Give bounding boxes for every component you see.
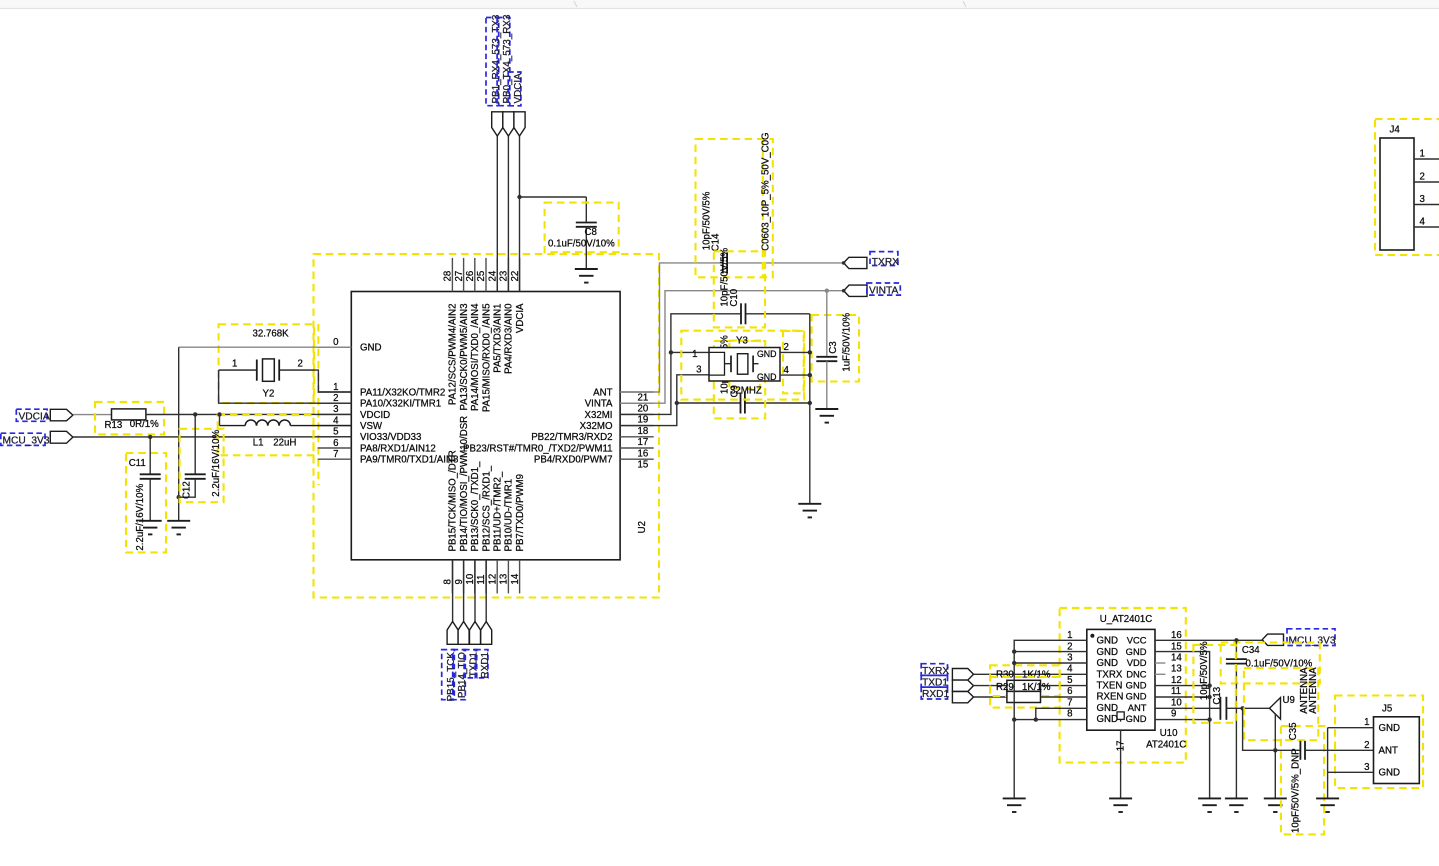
svg-text:R29: R29 [996, 682, 1014, 693]
wire VDCIA to C8 [520, 197, 587, 223]
svg-text:VINTA: VINTA [585, 399, 613, 410]
C14 selection box [696, 132, 773, 277]
net label TXD1 [464, 650, 480, 678]
svg-text:14: 14 [1171, 653, 1182, 664]
connector J4 [1375, 119, 1439, 255]
svg-text:1: 1 [1067, 630, 1072, 641]
svg-text:PB22/TMR3/RXD2: PB22/TMR3/RXD2 [531, 432, 612, 443]
capacitor C12 2.2uF [179, 414, 224, 502]
wire C35 to J5 pin2 [1305, 749, 1374, 751]
junction X32MO/C9 [675, 401, 679, 405]
U2 pin 17 PB22/TMR3/RXD2 [531, 432, 653, 448]
U10 pin 7 GND [1067, 697, 1118, 714]
U2 pin 21 ANT [593, 387, 654, 403]
svg-text:15: 15 [638, 460, 649, 471]
net label PB0_TX4_573_RX3 [497, 14, 513, 106]
svg-text:1: 1 [1364, 717, 1369, 728]
U2 pin 26 PA14/MOSI/TXD0_/AIN4 [465, 258, 481, 411]
svg-text:0R/1%: 0R/1% [130, 419, 159, 430]
inductor L1 22uH [218, 414, 352, 455]
svg-text:GND: GND [757, 349, 777, 359]
wire VINTA net [620, 291, 844, 404]
net label PB14_TIO [453, 650, 469, 700]
junction gnd right pin12 [1207, 683, 1211, 687]
wire U2 to PB14_TIO [463, 560, 465, 622]
svg-text:PB15_TCK: PB15_TCK [446, 652, 457, 702]
wire branch to C35 [1243, 708, 1301, 750]
U2 pin 4 VSW [318, 415, 383, 432]
svg-text:C0603_10P_5%_50V_C0G: C0603_10P_5%_50V_C0G [760, 132, 771, 251]
svg-text:PB23/RST#/TMR0_/TXD2/PWM11: PB23/RST#/TMR0_/TXD2/PWM11 [463, 443, 612, 454]
svg-text:R13: R13 [105, 420, 123, 431]
U10 pin 10 ANT [1128, 697, 1183, 713]
svg-text:16: 16 [638, 448, 649, 459]
U10 pin 4 TXRX [1067, 664, 1123, 681]
page top bar [0, 0, 1439, 9]
svg-text:2: 2 [333, 393, 338, 404]
svg-text:GND: GND [1126, 646, 1147, 657]
U2 selection box [314, 254, 660, 598]
port PB14_TIO [458, 622, 469, 645]
svg-text:14: 14 [510, 573, 521, 584]
svg-text:4: 4 [1420, 217, 1426, 228]
svg-text:PB11/UD+/TMR2_: PB11/UD+/TMR2_ [493, 471, 504, 551]
svg-text:3: 3 [1420, 194, 1425, 205]
IC U2 body [351, 292, 620, 560]
port TXRX bottom [921, 664, 973, 680]
wire PB1_RX4_573_TX3 to U2 [496, 136, 498, 292]
svg-text:VDD: VDD [1127, 657, 1147, 668]
U2 pin 8 PB15/TCK/MISO_/DTR [443, 450, 459, 593]
U2 pin 6 PA8/RXD1/AIN12 [318, 438, 436, 455]
IC U10 body [1087, 614, 1187, 750]
svg-text:VINTA: VINTA [869, 286, 898, 297]
net label PB15_TCK [442, 650, 458, 702]
wire C9 row [677, 402, 810, 404]
ground C8 [575, 269, 598, 283]
svg-text:2: 2 [784, 342, 789, 353]
wire ANT to C13 [1155, 707, 1220, 709]
svg-text:VCC: VCC [1127, 635, 1147, 646]
svg-text:4: 4 [333, 415, 339, 426]
svg-text:GND: GND [1379, 768, 1401, 779]
port PB0_TX4_573_RX3 [503, 112, 514, 136]
svg-text:PA12/SCS/PWM4/AIN2: PA12/SCS/PWM4/AIN2 [448, 304, 459, 406]
IC U2 designator [637, 521, 648, 533]
wire antenna to gnd [1274, 713, 1276, 798]
svg-text:22uH: 22uH [273, 438, 296, 449]
U10 pin 6 RXEN [1067, 686, 1123, 703]
wire U2 to RXD1 [485, 560, 487, 622]
junction MCU_3V3/C11 [148, 435, 152, 439]
svg-text:DNC: DNC [1126, 668, 1147, 679]
U10 pin 12 GND [1126, 675, 1182, 691]
svg-text:U9: U9 [1283, 695, 1295, 706]
U2 pin 5 VIO33/VDD33 [318, 427, 422, 444]
port PB1_RX4_573_TX3 [492, 112, 503, 136]
svg-text:10pF/50V/5%: 10pF/50V/5% [1199, 641, 1210, 700]
svg-text:ANT: ANT [593, 387, 612, 398]
U2 pin 22 VDCIA [510, 258, 526, 333]
svg-text:C10: C10 [729, 288, 740, 306]
wire ANT to TXRX [620, 263, 844, 392]
junction antenna branch [1240, 706, 1244, 710]
U10 pin 11 GND [1126, 686, 1181, 702]
wire Y3 gnd drop [809, 314, 811, 504]
junction C9/gnd [808, 401, 812, 405]
ground Y3 [798, 504, 821, 518]
svg-text:J5: J5 [1382, 704, 1392, 715]
svg-text:VDCIA: VDCIA [19, 411, 50, 422]
ground GND net [167, 521, 190, 535]
U2 pin 0 GND [318, 337, 382, 354]
U10 pin13 stub [1155, 673, 1165, 675]
svg-text:GND: GND [1097, 703, 1119, 714]
junction Y3 pin4 [808, 373, 812, 377]
svg-text:1: 1 [1420, 149, 1425, 160]
svg-text:13: 13 [499, 574, 510, 585]
svg-text:RXD1: RXD1 [480, 651, 491, 678]
svg-text:PA11/X32KO/TMR2: PA11/X32KO/TMR2 [360, 387, 445, 398]
svg-text:GND: GND [1097, 714, 1119, 725]
svg-text:27: 27 [454, 271, 465, 282]
svg-text:AT2401C: AT2401C [1146, 740, 1186, 751]
ground U10 left [1003, 798, 1026, 812]
capacitor C14 10pF [723, 252, 727, 273]
svg-text:TXRX: TXRX [872, 257, 899, 268]
U2 pin 7 PA9/TMR0/TXD1/AIN8 [318, 449, 459, 466]
svg-text:10pF/50V/5%_DNP: 10pF/50V/5%_DNP [1291, 748, 1302, 833]
svg-text:GND: GND [1097, 636, 1119, 647]
port VINTA [842, 283, 900, 297]
junction VDCIA/C8 [517, 195, 521, 199]
svg-text:1: 1 [333, 382, 338, 393]
svg-text:PB14_TIO: PB14_TIO [457, 652, 468, 698]
svg-text:9: 9 [1171, 709, 1176, 720]
wire U10 gnd bus [1014, 640, 1087, 798]
svg-text:2.2uF/16V/10%: 2.2uF/16V/10% [135, 483, 146, 550]
svg-text:11: 11 [1171, 686, 1181, 697]
U2 pin 15 PB4/RXD0/PWM7 [534, 455, 654, 471]
svg-text:PA4/RXD3/AIN0: PA4/RXD3/AIN0 [504, 303, 515, 374]
svg-text:6: 6 [1067, 686, 1072, 697]
svg-text:1uF/50V/10%: 1uF/50V/10% [842, 313, 853, 372]
crystal Y2 32.768K [219, 324, 314, 403]
junction gnd bus pin3 [1012, 661, 1016, 665]
svg-text:10: 10 [1171, 697, 1182, 708]
wire U10 gnd right [1155, 652, 1210, 799]
svg-text:TXD1: TXD1 [469, 652, 480, 678]
svg-text:4: 4 [1067, 664, 1073, 675]
junction gnd bus pin2 [1012, 649, 1016, 653]
U2 pin 19 X32MI [585, 410, 654, 426]
svg-text:PA5/TXD3/AIN1: PA5/TXD3/AIN1 [493, 304, 504, 373]
svg-text:17: 17 [638, 437, 649, 448]
U2 pin 3 VDCID [318, 404, 390, 421]
svg-text:0.1uF/50V/10%: 0.1uF/50V/10% [548, 239, 615, 250]
svg-text:PB13/SCK0_/TXD1_: PB13/SCK0_/TXD1_ [470, 461, 481, 552]
U10 pin 3 GND [1067, 653, 1118, 670]
junction gnd bus pin8 [1012, 717, 1016, 721]
ground J5 [1316, 798, 1339, 812]
svg-text:C34: C34 [1242, 645, 1260, 656]
svg-text:C13: C13 [1212, 687, 1223, 705]
U10 pin 15 GND [1126, 641, 1182, 657]
wire C13 to antenna [1226, 707, 1269, 709]
port TXD1 [921, 675, 973, 691]
ground C34 [1225, 798, 1248, 812]
wire Y2 pin1 to U2 pin2 [219, 370, 352, 403]
capacitor C3 1uF [812, 291, 859, 409]
svg-text:VDCIA: VDCIA [513, 73, 524, 104]
svg-text:Y3: Y3 [736, 336, 748, 347]
net label RXD1 [475, 650, 491, 679]
svg-text:MCU_3V3: MCU_3V3 [1289, 636, 1336, 647]
junction VDCID/C12 [193, 412, 197, 416]
svg-text:RXEN: RXEN [1097, 692, 1124, 703]
wire X32MI net [620, 314, 810, 415]
U2 pin 25 PA15/MISO/RXD0_/AIN5 [476, 258, 492, 412]
svg-text:PB15/TCK/MISO_/DTR: PB15/TCK/MISO_/DTR [448, 450, 459, 551]
svg-text:2: 2 [1420, 172, 1425, 183]
U10 pin 14 VDD [1127, 653, 1183, 669]
wire VDCIA to R13 [73, 414, 112, 416]
antenna U9 [1244, 667, 1319, 740]
U10 pin 16 VCC [1127, 630, 1182, 646]
svg-text:1: 1 [232, 359, 237, 370]
svg-text:ANT: ANT [1379, 746, 1398, 757]
junction VINTA/C3 [825, 289, 829, 293]
svg-text:PB12/SCS_/RXD1_: PB12/SCS_/RXD1_ [481, 465, 492, 551]
power port VDCIA [16, 409, 73, 422]
svg-text:Y2: Y2 [263, 389, 275, 400]
port TXD1 [470, 622, 481, 645]
svg-text:2: 2 [1364, 740, 1369, 751]
svg-text:PB14/TIO/MOSI_/PWM10/DSR: PB14/TIO/MOSI_/PWM10/DSR [459, 416, 470, 552]
U10 pin 2 GND [1067, 641, 1118, 658]
svg-text:32MHZ: 32MHZ [730, 386, 762, 397]
svg-text:X32MI: X32MI [585, 410, 613, 421]
junction pin7/pin8 [1034, 717, 1038, 721]
svg-text:5: 5 [333, 427, 338, 438]
junction GND/C12 [177, 495, 181, 499]
U2 pin 16 PB23/RST#/TMR0_/TXD2/PWM11 [463, 443, 654, 459]
svg-text:25: 25 [476, 271, 487, 282]
svg-text:PA9/TMR0/TXD1/AIN8: PA9/TMR0/TXD1/AIN8 [360, 455, 458, 466]
wire VDCIA to U2 [519, 136, 521, 292]
svg-text:PB7/TXD0/PWM9: PB7/TXD0/PWM9 [515, 474, 526, 552]
svg-text:21: 21 [638, 392, 649, 403]
svg-text:19: 19 [638, 415, 649, 426]
capacitor C35 10pF DNP [1281, 722, 1324, 834]
svg-text:3: 3 [1067, 653, 1072, 664]
wire U2 to TXD1 [474, 560, 476, 622]
svg-text:PA8/RXD1/AIN12: PA8/RXD1/AIN12 [360, 443, 436, 454]
U10 pin14 stub [1155, 662, 1165, 664]
wire Y3 pin2 lead [780, 351, 810, 353]
svg-text:PA15/MISO/RXD0_/AIN5: PA15/MISO/RXD0_/AIN5 [481, 304, 492, 413]
U2 pin 14 PB7/TXD0/PWM9 [510, 474, 526, 593]
resistor R29 1K/1% [990, 677, 1087, 708]
svg-text:GND: GND [1097, 658, 1119, 669]
svg-text:7: 7 [333, 449, 338, 460]
svg-text:GND: GND [1379, 723, 1401, 734]
svg-text:ANT: ANT [1128, 702, 1147, 713]
ground C11 [139, 521, 162, 535]
svg-text:C11: C11 [129, 458, 146, 469]
wire TXRX to U10 pin4 [974, 673, 1087, 675]
svg-text:VIO33/VDD33: VIO33/VDD33 [360, 432, 421, 443]
port VDCIA [514, 112, 525, 136]
connector J5 [1328, 696, 1423, 799]
wire U2 pin0 GND [179, 347, 352, 521]
svg-text:3: 3 [333, 404, 338, 415]
svg-text:PA10/X32KI/TMR1: PA10/X32KI/TMR1 [360, 399, 441, 410]
svg-text:MCU_3V3: MCU_3V3 [3, 435, 50, 446]
port RXD1 [921, 687, 973, 703]
wire MCU_3V3 to U2 pin5 [73, 436, 351, 438]
net label VDCIA [508, 72, 524, 106]
svg-text:L1: L1 [253, 438, 264, 449]
U2 pin 24 PA5/TXD3/AIN1 [487, 258, 503, 373]
svg-text:J4: J4 [1390, 125, 1401, 136]
svg-text:2: 2 [1067, 641, 1072, 652]
crystal Y3 32MHZ [681, 331, 804, 400]
wire PB0_TX4_573_RX3 to U2 [507, 136, 509, 292]
svg-text:R30: R30 [996, 670, 1014, 681]
svg-text:6: 6 [333, 438, 338, 449]
wire U2 to PB15_TCK [452, 560, 454, 622]
wire X32MO net [620, 375, 709, 426]
svg-text:12: 12 [487, 574, 498, 585]
U10 pin 9 GND [1126, 709, 1177, 725]
svg-text:VSW: VSW [360, 421, 383, 432]
U2 pin 18 X32MO [580, 421, 654, 437]
capacitor C34 0.1uF [1221, 640, 1320, 798]
port PB15_TCK [447, 622, 458, 645]
U2 pin 9 PB14/TIO/MOSI_/PWM10/DSR [454, 416, 470, 594]
U2 pin 13 PB10/UD-/TMR1 [499, 479, 515, 594]
svg-text:2: 2 [298, 359, 303, 370]
svg-text:18: 18 [638, 426, 649, 437]
U2 pin 12 PB11/UD+/TMR2_ [487, 471, 503, 593]
svg-text:1K/1%: 1K/1% [1022, 682, 1051, 693]
svg-text:2.2uF/16V/10%: 2.2uF/16V/10% [211, 430, 222, 497]
svg-text:13: 13 [1171, 664, 1182, 675]
svg-text:8: 8 [1067, 709, 1072, 720]
svg-text:U10: U10 [1160, 728, 1178, 739]
U2 pin 11 PB12/SCS_/RXD1_ [476, 465, 492, 593]
svg-text:VDCID: VDCID [360, 410, 390, 421]
svg-text:3: 3 [1364, 762, 1369, 773]
U2 pin 20 VINTA [585, 399, 654, 415]
svg-text:GND: GND [1097, 647, 1119, 658]
svg-text:26: 26 [465, 271, 476, 282]
U10 selection box [1060, 608, 1186, 763]
junction gnd right pin11 [1207, 695, 1211, 699]
svg-text:X32MO: X32MO [580, 421, 613, 432]
U10 pad 17 [1116, 730, 1127, 798]
svg-text:4: 4 [784, 365, 790, 376]
ground C3 [815, 409, 838, 423]
junction Y3 pin2 [808, 350, 812, 354]
net label PB1_RX4_573_TX3 [486, 14, 502, 106]
svg-text:7: 7 [1067, 697, 1072, 708]
ground antenna [1264, 798, 1287, 812]
U10 pin 8 GND [1067, 709, 1118, 726]
svg-text:PA13/SCK0/PWM5/AIN3: PA13/SCK0/PWM5/AIN3 [459, 304, 470, 411]
svg-text:1K/1%: 1K/1% [1022, 670, 1051, 681]
svg-text:VDCIA: VDCIA [515, 303, 526, 333]
svg-text:TXRX: TXRX [1097, 669, 1123, 680]
U2 pin 23 PA4/RXD3/AIN0 [499, 258, 515, 374]
capacitor C9 10pF [714, 335, 765, 418]
svg-text:28: 28 [443, 271, 454, 282]
svg-text:PB4/RXD0/PWM7: PB4/RXD0/PWM7 [534, 455, 613, 466]
wire Y3 pin4 lead [780, 374, 810, 376]
capacitor C13 10pF [1193, 641, 1235, 723]
U2 pin 2 PA10/X32KI/TMR1 [318, 393, 441, 410]
svg-text:U_AT2401C: U_AT2401C [1100, 614, 1153, 625]
svg-text:GND: GND [1126, 691, 1147, 702]
U2 pin 28 PA12/SCS/PWM4/AIN2 [443, 258, 459, 405]
U10 pin 5 TXEN [1067, 675, 1122, 692]
svg-text:0: 0 [333, 337, 339, 348]
capacitor C8 [545, 203, 619, 269]
wire RXD1 to R29 [974, 696, 1007, 698]
ground U10 pad [1109, 798, 1132, 812]
svg-text:GND: GND [1126, 713, 1147, 724]
resistor R30 1K/1% [990, 665, 1087, 696]
svg-text:TXEN: TXEN [1097, 681, 1123, 692]
svg-text:GND: GND [1126, 680, 1147, 691]
svg-text:ANTENNA: ANTENNA [1308, 667, 1319, 714]
svg-text:C8: C8 [585, 227, 597, 238]
svg-text:C35: C35 [1288, 722, 1299, 740]
svg-text:5: 5 [1067, 675, 1072, 686]
svg-text:20: 20 [638, 404, 649, 415]
port RXD1 [481, 622, 492, 645]
U10 pin 13 DNC [1126, 664, 1182, 680]
wire VCC to MCU_3V3 [1155, 639, 1262, 641]
U2 pin 1 PA11/X32KO/TMR2 [318, 382, 446, 399]
svg-text:15: 15 [1171, 641, 1182, 652]
wire Y2 pin2 to U2 pin1 [314, 370, 351, 392]
U10 pin 1 GND [1067, 630, 1118, 647]
svg-text:17: 17 [1116, 741, 1127, 752]
junction VCC/C34 [1234, 638, 1238, 642]
svg-text:PA14/MOSI/TXD0_/AIN4: PA14/MOSI/TXD0_/AIN4 [470, 303, 481, 411]
svg-text:C12: C12 [182, 481, 193, 499]
U2 pin 10 PB13/SCK0_/TXD1_ [465, 461, 481, 593]
junction X32MI/Y3 pin1 [669, 350, 673, 354]
port TXRX [842, 252, 899, 269]
svg-text:U2: U2 [637, 521, 648, 533]
svg-text:PB10/UD-/TMR1: PB10/UD-/TMR1 [504, 479, 515, 552]
svg-text:1: 1 [692, 349, 697, 360]
svg-text:C3: C3 [828, 341, 839, 353]
svg-text:GND: GND [360, 343, 382, 354]
svg-text:16: 16 [1171, 630, 1182, 641]
ground U10 right [1198, 798, 1221, 812]
capacitor C10 10pF [714, 248, 765, 328]
svg-text:GND: GND [757, 372, 777, 382]
wire TXD1 to R30 [974, 685, 1007, 687]
junction antenna/C35 row [1273, 748, 1277, 752]
svg-text:12: 12 [1171, 675, 1182, 686]
capacitor C11 2.2uF [126, 437, 166, 553]
port MCU_3V3 right [1262, 629, 1336, 647]
